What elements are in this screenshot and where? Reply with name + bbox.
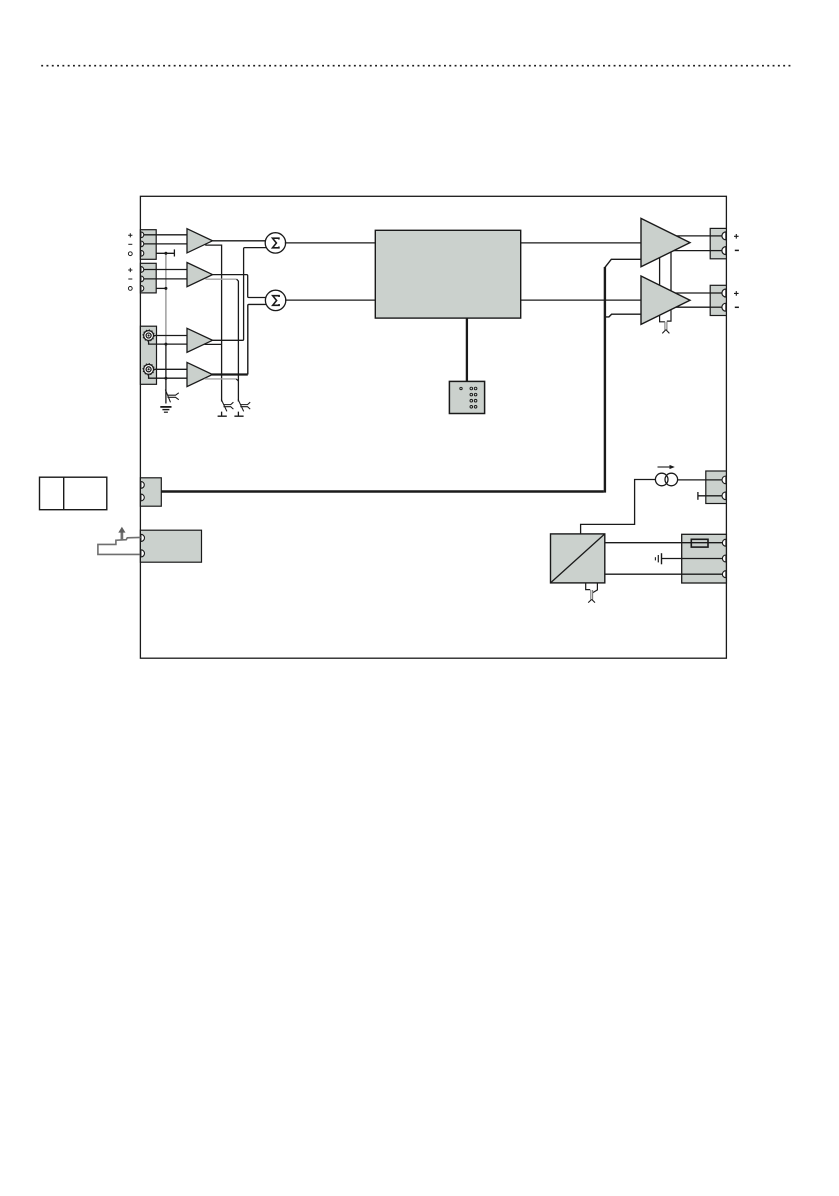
wire DSP to U6 output amp A bbox=[521, 242, 641, 244]
junction node J2 sleeve bbox=[164, 377, 167, 380]
wire U4 return (gray) bbox=[205, 378, 237, 380]
X9 terminal pin 3 bbox=[722, 571, 726, 578]
wire J2 tip to U4 bbox=[154, 368, 187, 370]
shield stub under U7 bbox=[660, 310, 671, 322]
ground shield symbol 1 (return bus 1) bbox=[221, 400, 233, 412]
wire X1.2 to U1 input bbox=[144, 243, 187, 245]
wire U4 riser to S2 bbox=[248, 304, 267, 374]
switch lever symbol (gray) bbox=[98, 537, 141, 554]
coupling wire U6-U7 b bbox=[670, 252, 672, 291]
X7 terminal pin 1 bbox=[141, 534, 145, 541]
X9 terminal pin 2 bbox=[722, 555, 726, 562]
X7 terminal pin 2 bbox=[141, 550, 145, 557]
programming connector J3 bbox=[449, 381, 484, 413]
label X1 minus bbox=[128, 243, 132, 245]
wire X9.2 to chassis ground bbox=[662, 558, 723, 560]
terminal block X4 (output A) bbox=[710, 228, 726, 258]
wire U8 to X9.3 bbox=[605, 573, 723, 575]
label X5 minus bbox=[735, 306, 739, 308]
J3 pin dot single bbox=[460, 387, 462, 389]
op-amp U2 (input buffer 2) bbox=[187, 263, 213, 287]
summer node S1 bbox=[265, 233, 285, 253]
bus branch to U6 bbox=[605, 259, 641, 267]
X8 terminal pin 1 bbox=[722, 476, 726, 484]
wire J2 sleeve to U4 bbox=[149, 374, 187, 378]
label X1 shield o bbox=[128, 252, 132, 256]
junction node X1 shield bbox=[164, 252, 167, 255]
wire S1 to DSP bbox=[285, 242, 376, 244]
op-amp U6 (output driver A) bbox=[641, 218, 690, 266]
terminal block X3 (jack inputs) bbox=[140, 326, 156, 384]
termination bar on X8.2 bbox=[697, 492, 699, 500]
power supply U8 bbox=[551, 534, 605, 583]
wire DSP to programming connector (thick) bbox=[466, 318, 468, 381]
X6 terminal pin 2 bbox=[141, 494, 144, 501]
wire U1 output to summer S1 bbox=[212, 240, 266, 242]
label X1 plus bbox=[128, 233, 132, 237]
op-amp U1 (input buffer 1) bbox=[187, 229, 213, 253]
wire U3 main output to S1 bbox=[212, 248, 267, 341]
terminal block X1 (input 1) bbox=[140, 230, 156, 260]
wire X2 shield stub bbox=[156, 287, 166, 289]
X1 terminal pin 2 bbox=[141, 241, 144, 247]
wire U7 output plus to X5 bbox=[675, 292, 722, 294]
label X2 plus bbox=[128, 268, 132, 272]
X5 terminal pin 1 bbox=[722, 289, 726, 297]
wire J1 tip to U3 bbox=[154, 335, 187, 337]
X1 terminal pin 1 bbox=[141, 232, 144, 238]
shield bus (black section to ground) bbox=[165, 344, 167, 403]
jack connector J1 bbox=[144, 331, 154, 341]
wire X4 inside bbox=[710, 235, 722, 237]
summer node S2 bbox=[265, 290, 285, 310]
junction node J1 sleeve bbox=[164, 343, 167, 346]
wire X2.1 to U2 input bbox=[144, 269, 187, 271]
label X4 minus bbox=[735, 249, 739, 251]
X8 terminal pin 2 bbox=[722, 492, 726, 500]
earth ground symbol bbox=[160, 406, 171, 408]
coupling wire U6-U7 a bbox=[659, 258, 661, 286]
switch arrow (gray) bbox=[121, 532, 124, 540]
wire DSP to U7 output amp B bbox=[521, 299, 641, 301]
wire U7 output minus to X5 bbox=[676, 306, 723, 308]
label X4 plus bbox=[734, 234, 739, 239]
wire U8 to fuse to X9.1 bbox=[605, 542, 723, 544]
transformer T1 bbox=[655, 473, 668, 486]
label X5 plus bbox=[734, 291, 739, 296]
wire transformer to X8 bbox=[678, 479, 723, 481]
label X2 shield o bbox=[128, 287, 132, 291]
wire return bus 2 bbox=[237, 279, 239, 401]
wire U2 main output to S2 bbox=[212, 275, 266, 298]
wire S2 to DSP bbox=[285, 299, 375, 301]
DSP block U5 bbox=[375, 230, 520, 318]
fuse F1 bbox=[691, 539, 708, 547]
open ground bar 1 bbox=[218, 412, 227, 417]
termination bar on X1 shield bbox=[173, 249, 175, 256]
X9 terminal pin 1 bbox=[722, 539, 726, 546]
X5 terminal pin 2 bbox=[722, 303, 726, 311]
X4 terminal pin 1 bbox=[722, 232, 726, 240]
wire X9.3 inside bbox=[682, 573, 723, 575]
U8 diagonal bbox=[551, 534, 605, 583]
chassis shield symbol under U8 bbox=[591, 590, 593, 600]
bus branch to U7 bbox=[605, 314, 641, 317]
terminal block X5 (output B) bbox=[710, 285, 726, 315]
wire U3 return branch bbox=[205, 343, 222, 345]
wire U6 output plus to X4 bbox=[676, 235, 722, 237]
label box (legend, empty) bbox=[40, 477, 107, 510]
bus riser (thick vertical) bbox=[604, 267, 606, 493]
label X2 minus bbox=[128, 278, 132, 280]
terminal block X7 (switch block) bbox=[140, 530, 201, 562]
wire X2.2 to U2 input bbox=[144, 278, 187, 280]
chassis ground bars bbox=[661, 553, 663, 564]
shield bus (gray) bbox=[165, 253, 167, 344]
jack connector J2 bbox=[144, 364, 154, 374]
X4 terminal pin 2 bbox=[722, 247, 726, 255]
wire X8 inside bbox=[706, 479, 723, 481]
wire X1.1 to U1 input bbox=[144, 234, 187, 236]
label box divider bbox=[63, 477, 65, 510]
terminal block X2 (input 2) bbox=[140, 263, 156, 293]
wire U6 output minus to X4 bbox=[674, 250, 723, 252]
wire X8.2 termination bbox=[698, 495, 722, 497]
X2 terminal pin 2 bbox=[141, 276, 144, 282]
dotted separator rule bbox=[41, 65, 793, 67]
wire U2 output (gray) bbox=[205, 278, 236, 280]
wire transformer to PSU input bbox=[581, 480, 656, 534]
J3 pin grid bbox=[470, 387, 477, 408]
X6 terminal pin 1 bbox=[141, 482, 144, 489]
op-amp U4 (jack buffer 2) bbox=[187, 362, 213, 386]
ground shield symbol 2 (return bus 2) bbox=[238, 400, 250, 412]
junction node X2 shield bbox=[164, 287, 167, 290]
X2 terminal pin 3 bbox=[141, 286, 144, 292]
bus wire X6 to output stage (thick) bbox=[161, 490, 604, 492]
wire U1 return branch bbox=[205, 245, 221, 401]
wire J1 sleeve to U3 bbox=[149, 341, 187, 345]
X1 terminal pin 3 bbox=[141, 250, 144, 256]
terminal block X8 (AC input) bbox=[706, 471, 727, 504]
arrow above transformer bbox=[658, 466, 672, 468]
shield stubs under U8 bbox=[586, 583, 598, 593]
cable shield symbol at earth ground bbox=[165, 390, 179, 403]
wire X9.1 inside bbox=[682, 542, 723, 544]
open ground bar 2 bbox=[234, 412, 243, 417]
wire X1 shield stub bbox=[156, 252, 174, 254]
chassis shield symbol under U7 bbox=[665, 322, 667, 330]
terminal block X9 (DC output) bbox=[682, 534, 727, 583]
frame (diagram border) bbox=[140, 196, 726, 658]
X2 terminal pin 1 bbox=[141, 267, 144, 273]
op-amp U3 (jack buffer 1) bbox=[187, 328, 213, 352]
wire X5 inside bbox=[710, 292, 722, 294]
terminal block X6 (trigger input) bbox=[140, 478, 161, 506]
op-amp U7 (output driver B) bbox=[641, 276, 690, 324]
wire U4 main output to S2 (thick) bbox=[212, 373, 248, 375]
